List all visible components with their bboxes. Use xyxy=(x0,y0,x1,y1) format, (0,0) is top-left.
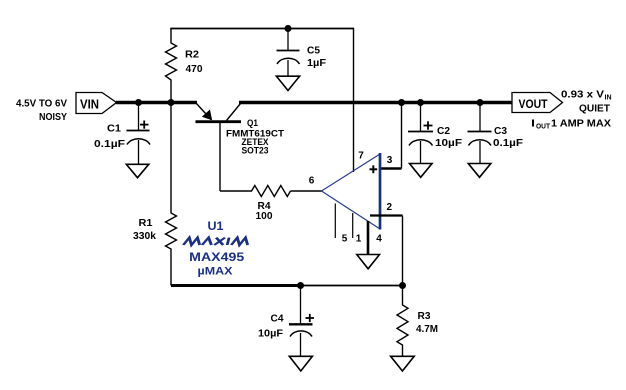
op-amp plus input mark xyxy=(370,168,378,170)
ground C3 xyxy=(468,164,491,178)
svg-text:4.5V TO 6V: 4.5V TO 6V xyxy=(16,98,67,110)
MAXIM logo xyxy=(183,238,249,245)
capacitor C2 xyxy=(420,103,422,132)
ground pin 4 xyxy=(357,255,380,269)
node C5 tap xyxy=(285,25,292,32)
svg-text:Q1: Q1 xyxy=(247,118,259,129)
ground C5 xyxy=(276,76,299,90)
svg-text:4: 4 xyxy=(376,234,382,245)
svg-text:1µF: 1µF xyxy=(307,58,326,69)
input tag VIN xyxy=(76,93,117,114)
svg-text:VOUT: VOUT xyxy=(519,97,549,111)
wire top supply rail xyxy=(170,28,353,30)
ground R3 xyxy=(391,356,415,371)
C4 plus polarity mark xyxy=(306,317,315,319)
svg-text:U1: U1 xyxy=(208,219,224,233)
svg-text:VIN: VIN xyxy=(80,97,99,112)
svg-text:0.93 x V: 0.93 x V xyxy=(561,89,604,101)
svg-text:QUIET: QUIET xyxy=(579,103,611,115)
svg-text:3: 3 xyxy=(387,155,393,166)
wire bottom feedback rail xyxy=(171,284,301,287)
resistor R3 xyxy=(397,286,408,357)
svg-text:10µF: 10µF xyxy=(258,329,283,340)
node C3 tap xyxy=(477,99,484,106)
wire pin 2 feedback xyxy=(370,214,403,216)
node pin3 tap xyxy=(398,99,405,106)
svg-text:1: 1 xyxy=(356,234,362,245)
svg-text:6: 6 xyxy=(309,176,315,187)
svg-text:R1: R1 xyxy=(139,218,153,229)
svg-text:2: 2 xyxy=(387,202,393,213)
ground C2 xyxy=(410,164,433,178)
svg-text:0.1µF: 0.1µF xyxy=(94,139,125,150)
svg-text:330k: 330k xyxy=(133,231,156,242)
output tag VOUT xyxy=(512,93,563,113)
svg-text:IN: IN xyxy=(605,95,612,102)
svg-text:4.7M: 4.7M xyxy=(416,324,438,335)
node C4 tap xyxy=(297,282,304,289)
capacitor C5 xyxy=(287,29,289,51)
wire op-amp pin 3 to VOUT rail xyxy=(401,103,403,169)
C1 plus polarity mark xyxy=(140,124,149,126)
node C1 tap xyxy=(135,99,142,106)
pin 5 stub xyxy=(334,204,336,239)
svg-text:5: 5 xyxy=(342,234,348,245)
svg-text:MAX495: MAX495 xyxy=(189,250,244,264)
svg-text:µMAX: µMAX xyxy=(198,266,234,278)
svg-text:R2: R2 xyxy=(185,50,199,61)
wire op-amp output pin 6 xyxy=(291,190,322,192)
ground C1 xyxy=(126,164,149,177)
wire VOUT rail xyxy=(239,101,512,104)
svg-text:I: I xyxy=(531,118,535,130)
svg-text:470: 470 xyxy=(186,64,203,75)
wire VIN rail xyxy=(116,101,197,104)
transistor Q1 xyxy=(196,103,211,120)
resistor R2 xyxy=(166,29,177,103)
svg-text:C3: C3 xyxy=(494,126,507,137)
resistor R1 xyxy=(166,103,177,286)
pin 1 stub xyxy=(352,213,354,238)
op-amp U1 triangle xyxy=(322,154,381,191)
svg-text:C1: C1 xyxy=(107,124,121,135)
svg-text:OUT: OUT xyxy=(536,124,551,131)
capacitor C4 xyxy=(300,286,302,324)
capacitor C1 xyxy=(138,103,140,131)
svg-text:0.1µF: 0.1µF xyxy=(493,138,523,149)
node R1/R2 tap xyxy=(168,99,175,106)
svg-text:C2: C2 xyxy=(437,126,450,137)
svg-text:C5: C5 xyxy=(307,46,320,57)
svg-text:10µF: 10µF xyxy=(435,138,462,149)
pin 4 lead xyxy=(367,221,370,254)
wire op-amp pin 7 supply xyxy=(353,28,355,172)
capacitor C3 xyxy=(479,103,481,132)
svg-text:100: 100 xyxy=(256,211,273,222)
ground C4 xyxy=(289,356,312,371)
node R3 tap xyxy=(399,282,406,289)
resistor R4 xyxy=(220,186,291,197)
node C2 tap xyxy=(417,99,424,106)
svg-text:R3: R3 xyxy=(418,311,431,322)
C2 plus polarity mark xyxy=(424,125,433,127)
svg-text:1 AMP MAX: 1 AMP MAX xyxy=(551,118,611,130)
svg-text:7: 7 xyxy=(358,151,364,162)
svg-text:NOISY: NOISY xyxy=(39,111,67,123)
svg-text:C4: C4 xyxy=(271,314,284,325)
svg-text:SOT23: SOT23 xyxy=(242,146,269,157)
